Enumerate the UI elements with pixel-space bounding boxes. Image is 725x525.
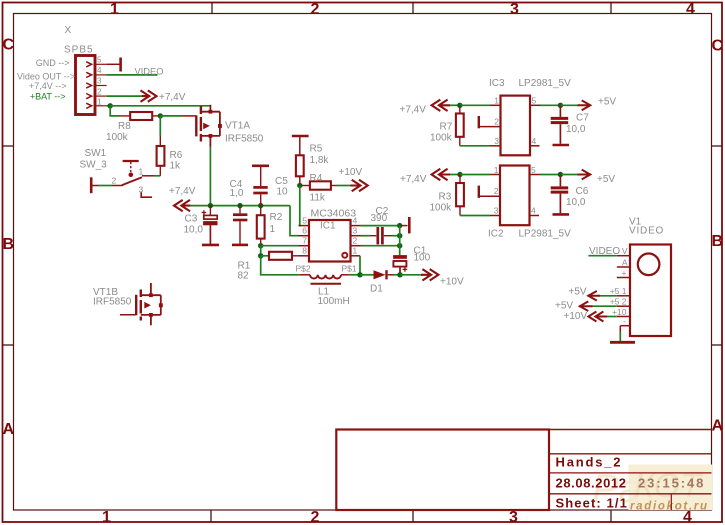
switch SW1 pivot dot (129, 173, 134, 178)
capacitor C1 plate top solid (393, 255, 407, 259)
transistor VT1B bottom connect (141, 314, 161, 316)
wire +7,4V bus (190, 205, 290, 207)
wire junction to +10V arrow (400, 274, 422, 276)
wire +5 1 net (600, 295, 617, 297)
svg-text:C: C (3, 37, 15, 54)
junction C7 top (558, 103, 563, 108)
connector X SPB5 body (76, 56, 96, 115)
transistor VT1B source arrow (144, 302, 151, 309)
connector pin 2 stub (95, 95, 107, 97)
wire minus pin down (619, 326, 621, 332)
svg-text:2: 2 (311, 509, 320, 525)
frame tick right 2 (712, 344, 723, 346)
svg-text:4: 4 (686, 1, 695, 18)
transistor VT1B top lead (150, 283, 152, 295)
transistor VT1A channel bar (200, 106, 202, 142)
title block row line 3 (549, 493, 712, 495)
svg-text:100: 100 (414, 253, 431, 264)
wire pin2 row (361, 245, 400, 247)
diode D1 lead right (388, 274, 394, 276)
svg-text:100k: 100k (106, 132, 129, 143)
capacitor C5 plate top (253, 186, 267, 189)
wire bus end down to pin6 (290, 206, 299, 236)
svg-text:10: 10 (277, 187, 289, 198)
resistor R5 lead top (299, 136, 301, 155)
capacitor C5 top bar (252, 165, 269, 168)
capacitor C4 plate top (233, 213, 247, 216)
svg-text:1: 1 (102, 509, 111, 525)
title block divider sheet row (670, 494, 672, 510)
transistor VT1A bulk bar (219, 112, 221, 136)
svg-text:+5V: +5V (598, 97, 616, 108)
wire junction to +5V arrow ic3 (560, 104, 578, 106)
svg-text:P$1: P$1 (342, 264, 357, 274)
svg-text:LP2981_5V: LP2981_5V (519, 229, 572, 240)
frame tick bottom 3 (610, 511, 612, 523)
supply arrow +7,4V left (174, 200, 191, 211)
svg-text:3: 3 (139, 185, 144, 195)
wire L1 to junction (350, 274, 360, 276)
switch contact 3 stub (141, 192, 152, 198)
junction R3 top (457, 172, 462, 177)
supply arrow +5V ic3 (578, 100, 591, 110)
wire arrow to junction ic3 (450, 104, 460, 106)
junction bus C3 (208, 203, 213, 208)
capacitor C7 plate top (551, 117, 569, 120)
connector V1 lens circle (638, 253, 660, 275)
frame tick left 1 (2, 145, 14, 147)
svg-text:1,0: 1,0 (230, 188, 244, 199)
svg-text:1: 1 (139, 167, 144, 177)
svg-text:3: 3 (510, 1, 519, 18)
switch SW1 lever (122, 177, 142, 185)
resistor R2 lead bottom (260, 239, 262, 246)
svg-text:2: 2 (97, 87, 102, 96)
svg-text:IC1: IC1 (320, 221, 336, 232)
capacitor C5 lead top (260, 166, 262, 186)
capacitor C2 plate left (376, 227, 379, 244)
capacitor C3 lead bottom (209, 225, 211, 244)
transistor VT1B gate bar (135, 295, 137, 315)
resistor R6 body (157, 146, 165, 166)
wire R3 to pin3 ic2 (460, 215, 490, 217)
svg-text:R4: R4 (310, 173, 323, 184)
svg-text:P$2: P$2 (296, 264, 311, 274)
capacitor C3 plate top hollow (204, 215, 217, 219)
IC1 pin 4 lead (351, 225, 361, 227)
junction pin3 (397, 233, 402, 238)
svg-text:5: 5 (97, 56, 102, 65)
svg-text:R2: R2 (270, 212, 283, 223)
capacitor C7 lead top (559, 105, 561, 117)
svg-text:8: 8 (302, 246, 307, 256)
svg-text:2: 2 (494, 117, 499, 127)
transistor VT1A top node square (209, 110, 213, 114)
resistor R5 body (296, 155, 304, 176)
svg-text:VIDEO: VIDEO (135, 67, 164, 77)
svg-text:SW1: SW1 (85, 148, 107, 159)
transistor VT1B bottom node square (149, 313, 153, 317)
svg-text:5: 5 (302, 216, 307, 226)
svg-text:+7,4V: +7,4V (400, 174, 427, 185)
wire R8 junction to gate lead (160, 115, 181, 117)
resistor R7 lead top (459, 105, 461, 113)
IC2 pin 1 lead (490, 174, 500, 176)
svg-text:10,0: 10,0 (184, 225, 204, 236)
switch pivot lead (112, 185, 123, 187)
capacitor C3 lead top (209, 206, 211, 216)
IC1 pin 7 lead (299, 245, 310, 247)
svg-text:+10V: +10V (440, 277, 464, 288)
junction bus C4 (237, 203, 242, 208)
supply arrow +5V ic2 (578, 170, 591, 180)
wire R5R4 junction down to pin5 (299, 186, 300, 226)
svg-text:VIDEO: VIDEO (629, 226, 664, 237)
svg-text:SW_3: SW_3 (80, 160, 108, 171)
svg-text:+10V: +10V (339, 167, 363, 178)
IC3 pin 5 lead (530, 104, 541, 106)
svg-text:23:15:48: 23:15:48 (638, 476, 705, 491)
wire pin1 down (359, 256, 361, 275)
capacitor C6 lead top (559, 175, 561, 187)
ground bar V1 (610, 341, 635, 344)
svg-text:100k: 100k (430, 133, 453, 144)
resistor R5 lead bottom (299, 176, 301, 185)
junction bus C5 R2 (258, 203, 263, 208)
svg-text:-: - (623, 316, 626, 326)
svg-text:IC2: IC2 (488, 229, 504, 240)
resistor R4 body (310, 181, 331, 189)
IC3 pin 2 bar (478, 116, 480, 128)
supply arrow +10V v1 (588, 312, 607, 322)
wire junction to pin1 ic3 (460, 104, 490, 106)
svg-text:1k: 1k (170, 161, 182, 172)
svg-text:4: 4 (353, 216, 358, 226)
connector pin 4 stub (95, 74, 107, 76)
svg-text:100k: 100k (430, 203, 453, 214)
svg-text:11k: 11k (310, 193, 326, 204)
connector pin 1 stub (95, 105, 107, 107)
transistor VT1B bulk square (159, 303, 163, 307)
junction L1 pin1 (357, 272, 362, 277)
wire junction to +5V arrow ic2 (560, 174, 578, 176)
inductor L1 core line (311, 283, 342, 285)
wire arrow to junction ic2 (450, 174, 460, 176)
capacitor C1 lead bottom (399, 267, 401, 275)
junction pin2 (397, 243, 402, 248)
svg-text:100mH: 100mH (318, 296, 350, 307)
IC1 pin1 marker dot (342, 253, 347, 258)
diode D1 cathode bar (385, 270, 387, 279)
wire pin2 to +7,4V arrow (107, 95, 144, 97)
capacitor C3 plus sign (202, 210, 207, 215)
capacitor C6 plate top (551, 186, 569, 189)
wire pin5 to junction C7 (541, 104, 561, 106)
wire junction down to R8 (110, 106, 119, 116)
svg-text:D1: D1 (370, 284, 383, 295)
wire pin2 net (98, 185, 112, 187)
capacitor C2 lead left (369, 235, 376, 237)
resistor R5 top bar (292, 135, 309, 138)
svg-text:R8: R8 (118, 121, 131, 132)
wire R7 to pin3 ic3 (460, 145, 490, 147)
frame tick left 2 (2, 344, 14, 346)
svg-text:SPB5: SPB5 (64, 45, 94, 56)
capacitor C3 end bar (202, 244, 219, 247)
svg-text:10,0: 10,0 (566, 124, 586, 135)
resistor R1 lead right (292, 255, 299, 257)
transistor VT1B top connect (141, 294, 161, 296)
connector pin 3 stub (95, 85, 107, 87)
svg-text:10,0: 10,0 (566, 197, 586, 208)
resistor R6 lead top (159, 136, 161, 146)
capacitor C6 end bar (553, 213, 570, 216)
svg-text:C6: C6 (576, 186, 589, 197)
op-amp IC1 body (309, 220, 351, 262)
V1 pin minus stub (620, 325, 630, 327)
V1 pin +5 2 stub (617, 305, 630, 307)
resistor R6 lead bottom (159, 166, 161, 176)
IC2 pin 2 lead (479, 195, 500, 197)
svg-text:4: 4 (532, 136, 537, 146)
title block top line right part (549, 429, 712, 431)
junction R8 right (158, 113, 163, 118)
IC1 pin 5 lead (299, 225, 310, 227)
svg-text:A: A (3, 421, 15, 438)
svg-text:1: 1 (270, 224, 276, 235)
capacitor C6 lead bottom (559, 194, 561, 214)
wire contact1 to R6 (154, 175, 161, 177)
svg-text:3: 3 (509, 509, 518, 525)
svg-text:1,8k: 1,8k (310, 155, 330, 166)
inductor L1 lead right (341, 274, 350, 276)
capacitor C2 plate right (381, 227, 384, 244)
switch pin 2 lead (91, 185, 98, 187)
connector pin chevron 4 (86, 72, 91, 77)
junction pin4 (397, 223, 402, 228)
svg-text:R6: R6 (170, 150, 183, 161)
wire bus to VT1A source (110, 105, 210, 107)
transistor VT1B bulk bar (160, 295, 162, 315)
wire pin1 to junction (107, 105, 111, 107)
transistor VT1A bottom connect (201, 135, 220, 137)
capacitor C7 end bar (553, 144, 570, 147)
supply arrow +5V v1 pin2 (579, 301, 593, 311)
svg-text:3: 3 (353, 226, 358, 236)
capacitor C4 end bar (232, 244, 248, 247)
switch contact 1 lead (142, 175, 154, 177)
resistor R3 lead top (459, 175, 461, 184)
IC2 pin 4 stub (530, 215, 540, 217)
svg-text:+7,4V: +7,4V (159, 92, 186, 103)
transistor VT1B channel bar (140, 290, 142, 321)
wire vertical pins 4-3-2 to C1 (399, 226, 401, 256)
transistor VT1A gate lead (182, 115, 197, 117)
supply arrow +10V right (351, 180, 368, 191)
svg-text:A: A (712, 418, 724, 435)
resistor R8 body (130, 112, 152, 120)
title block left box (336, 430, 549, 511)
svg-text:5: 5 (532, 96, 537, 106)
svg-text:1: 1 (494, 165, 499, 175)
capacitor C5 plate bottom (253, 192, 267, 195)
wire VIDEO to V1 (588, 255, 616, 257)
IC2 pin 2 bar (478, 186, 480, 198)
V1 pin plus stub (617, 277, 630, 279)
transistor VT1B bottom lead (150, 315, 152, 325)
svg-text:GND -->: GND --> (36, 58, 70, 68)
wire junction to D1 (360, 274, 374, 276)
IC3 pin 2 lead (479, 126, 501, 128)
svg-text:+10V: +10V (564, 311, 588, 322)
wire R8 junction down to R6 (159, 116, 161, 136)
svg-text:+5V: +5V (569, 287, 587, 298)
svg-text:C3: C3 (185, 214, 198, 225)
transistor VT1A bulk square (218, 124, 222, 128)
svg-text:VIDEO: VIDEO (589, 246, 620, 257)
capacitor C4 lead bottom (239, 221, 241, 244)
svg-text:1: 1 (110, 1, 119, 18)
capacitor C7 plate bottom (551, 121, 569, 124)
capacitor C1 plate bottom hollow (393, 261, 406, 267)
wire C2 to junction (392, 235, 400, 237)
svg-text:C5: C5 (275, 176, 288, 187)
supply arrow +7,4V right (141, 90, 157, 101)
transistor VT1B gate lead (120, 314, 136, 316)
V1 pin +5 1 stub (617, 295, 630, 297)
frame tick top 3 (610, 2, 612, 14)
capacitor C3 plate bottom solid (203, 221, 217, 225)
IC2 pin 3 lead (490, 215, 500, 217)
capacitor C2 lead right (384, 235, 392, 237)
wire pin5 to junction C6 (540, 174, 560, 176)
wire junction down to L1 row (261, 256, 300, 275)
frame tick right 1 (712, 145, 723, 147)
IC1 pin 8 lead (299, 255, 310, 257)
transistor VT1A top connect (201, 111, 220, 113)
svg-text:Video OUT -->: Video OUT --> (17, 71, 75, 81)
capacitor C4 plate bottom (233, 219, 247, 222)
svg-text:IRF5850: IRF5850 (225, 134, 264, 145)
svg-text:X: X (65, 25, 72, 36)
svg-text:+5 1: +5 1 (610, 286, 627, 296)
svg-text:28.08.2012: 28.08.2012 (556, 476, 627, 491)
svg-text:4: 4 (531, 206, 536, 216)
svg-text:3: 3 (494, 136, 499, 146)
resistor R1 body (269, 252, 292, 260)
transistor VT1A bottom node square (209, 134, 213, 138)
svg-text:4: 4 (97, 66, 102, 75)
junction R7 top (457, 103, 462, 108)
wire pin5 to gnd bar (107, 63, 120, 65)
wire +5 2 net (592, 305, 617, 307)
svg-text:2: 2 (112, 176, 117, 186)
svg-text:5: 5 (531, 165, 536, 175)
svg-text:R3: R3 (439, 192, 452, 203)
resistor R8 lead right (152, 115, 160, 117)
wire minus green segment (619, 332, 621, 341)
title block row line 1 (549, 453, 712, 455)
wire R2 junction to IC1 pin7 (261, 245, 299, 247)
switch SW1 actuator bar (123, 160, 139, 162)
wire pin4 end stub (400, 225, 408, 227)
connector pin chevron 3 (86, 83, 91, 88)
svg-text:3: 3 (494, 206, 499, 216)
wire junction to pin1 ic2 (460, 174, 490, 176)
svg-text:+7,4V: +7,4V (169, 186, 196, 197)
svg-text:radiokot.ru: radiokot.ru (630, 501, 709, 513)
connector pin chevron 1 (86, 103, 91, 108)
transistor VT1A gate bar (195, 115, 197, 136)
svg-text:A: A (622, 257, 628, 267)
resistor R7 lead bottom (459, 137, 461, 146)
svg-text:C7: C7 (576, 113, 589, 124)
capacitor C5 lead bottom (260, 194, 262, 205)
svg-text:1: 1 (97, 97, 102, 106)
svg-text:+5 2: +5 2 (610, 297, 627, 307)
V1 pin V stub (617, 255, 630, 257)
transistor VT1B top node square (149, 293, 153, 297)
svg-text:7: 7 (302, 236, 307, 246)
resistor R3 lead bottom (459, 206, 461, 215)
svg-text:+7,4V: +7,4V (400, 105, 427, 116)
IC3 pin 3 lead (490, 145, 501, 147)
svg-text:V: V (622, 246, 628, 256)
transistor VT1A top lead (209, 105, 211, 112)
svg-text:+BAT -->: +BAT --> (30, 91, 66, 101)
transistor VT1A source arrow (203, 123, 210, 130)
diode D1 triangle (374, 270, 386, 279)
junction R5 R4 (297, 183, 302, 188)
IC1 pin 3 lead (351, 235, 361, 237)
supply arrow +5V v1 pin1 (588, 291, 601, 301)
svg-text:LP2981_5V: LP2981_5V (519, 78, 572, 89)
IC1 pin 1 lead (351, 255, 361, 257)
resistor R3 body (456, 183, 464, 206)
title block row line 2 (549, 472, 712, 474)
svg-text:IC3: IC3 (489, 78, 505, 89)
svg-text:+7,4V -->: +7,4V --> (29, 81, 67, 91)
junction C1 bottom (397, 272, 402, 277)
svg-text:2: 2 (353, 236, 358, 246)
IC3 pin 4 stub (530, 145, 540, 147)
svg-text:82: 82 (238, 271, 250, 282)
svg-text:+: + (622, 268, 627, 278)
svg-text:2: 2 (494, 186, 499, 196)
inductor L1 lead left (299, 274, 310, 276)
frame tick top 2 (412, 2, 414, 14)
resistor R2 body (257, 215, 265, 238)
svg-text:3: 3 (97, 77, 102, 86)
wire R4 to +10V arrow (337, 185, 353, 187)
capacitor C4 lead top (239, 206, 241, 214)
junction R2 bottom (258, 243, 263, 248)
connector V1 body (630, 245, 671, 337)
capacitor C1 plus sign (403, 267, 408, 272)
connector pin 5 stub (95, 63, 107, 65)
connector pin chevron 5 (86, 62, 91, 67)
resistor R7 body (456, 114, 464, 137)
supply arrow +7,4V ic2 left (432, 169, 450, 180)
V1 pin A stub (617, 266, 630, 268)
voltage regulator IC3 body (501, 96, 531, 156)
V1 pin +10 stub (617, 316, 630, 318)
resistor R4 lead left (300, 185, 310, 187)
svg-text:R5: R5 (310, 144, 323, 155)
svg-text:R7: R7 (440, 122, 453, 133)
capacitor C7 lead bottom (559, 124, 561, 144)
svg-text:1: 1 (494, 96, 499, 106)
